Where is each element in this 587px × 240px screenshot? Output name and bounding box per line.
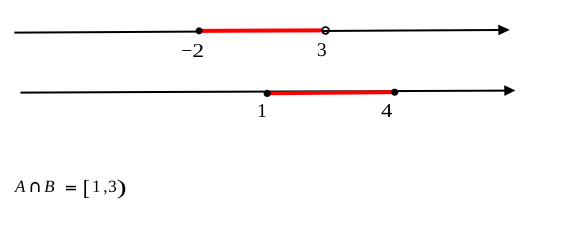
label 4 — [382, 104, 392, 117]
formula intersection symbol — [31, 182, 39, 191]
number line 2 axis — [20, 91, 505, 93]
label 1 — [259, 104, 266, 117]
equals sign bottom bar — [66, 189, 76, 191]
equals sign top bar — [66, 186, 76, 188]
label 3 — [318, 43, 326, 56]
open endpoint circle at 3 — [322, 27, 329, 34]
digit 2 of label -2 — [193, 44, 202, 57]
formula close paren — [118, 180, 126, 199]
minus of label -2 — [182, 49, 191, 52]
formula digit 1 — [94, 181, 100, 192]
red interval segment from 1 to 4 on line 2 — [267, 92, 395, 93]
formula open bracket — [84, 180, 89, 198]
red interval segment from -2 to 3 on line 1 — [199, 28, 321, 33]
formula comma — [104, 190, 107, 194]
formula B — [44, 181, 54, 192]
number line 1 arrowhead — [498, 25, 510, 36]
filled endpoint dot at 4 — [391, 89, 398, 96]
number line 2 arrowhead — [504, 85, 515, 96]
formula digit 3 — [109, 181, 116, 192]
filled endpoint dot at 1 — [264, 90, 271, 97]
formula A — [14, 181, 25, 192]
filled endpoint dot at -2 — [196, 27, 203, 34]
number line 1 axis — [14, 30, 499, 33]
